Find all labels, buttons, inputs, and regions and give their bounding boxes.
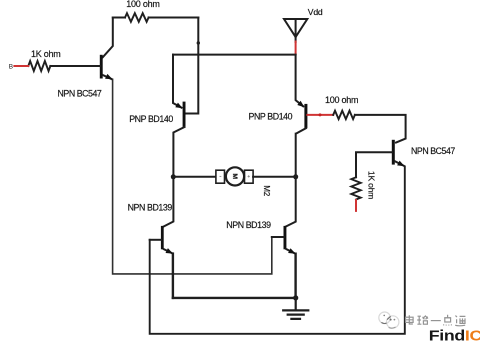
- wire Q3 base red: [307, 114, 333, 116]
- wire from R1 down to PNP1 base: [186, 18, 198, 114]
- wire Q1 emitter diagonal: [103, 75, 112, 79]
- wire Q6 emitter diagonal: [395, 161, 404, 165]
- svg-text:M2: M2: [262, 185, 271, 196]
- wire Q3 collector down through motor node to Q5: [286, 128, 306, 226]
- wire Q5 base: [272, 236, 284, 238]
- watermark logo marks: [382, 317, 395, 329]
- svg-text:B: B: [9, 63, 13, 70]
- node red dot on Q3 base wire: [319, 113, 322, 116]
- transistor Q6 NPN BC547 right bar: [392, 140, 395, 165]
- node dot on wire x198: [197, 41, 200, 44]
- watermark FindIC logo text: [429, 327, 480, 342]
- wire PNP Q2 emitter from rail: [173, 55, 182, 108]
- transistor Q5 NPN BD139 right bar: [284, 226, 287, 249]
- arrow Q4 emitter: [166, 248, 174, 254]
- arrow Q2 emitter (PNP): [175, 103, 182, 109]
- watermark chinese text 电路一点通 (drawn strokes): [406, 315, 466, 326]
- transistor Q3 PNP BD140 right bar: [304, 104, 307, 128]
- wire Vdd rail y54.6: [173, 54, 296, 56]
- wire ground rail: [173, 297, 296, 299]
- wire red input B: [14, 65, 28, 67]
- char 点: [444, 315, 452, 326]
- svg-text:FindIC: FindIC: [429, 327, 480, 342]
- svg-text:M: M: [231, 173, 238, 179]
- node right motor junction: [293, 174, 298, 179]
- arrow Q5 emitter: [288, 248, 296, 254]
- wire Q1 base from resistor: [50, 65, 99, 67]
- wire Q5 emitter diagonal: [286, 249, 294, 253]
- wire R3 to Q6 collector: [355, 115, 406, 143]
- transistor Q1 NPN BC547 left bar: [100, 55, 103, 79]
- svg-text:100 ohm: 100 ohm: [126, 0, 159, 9]
- motor M2 body circle: [226, 167, 244, 185]
- wire Q1 emitter down, across y274, up to Q4 base: [113, 79, 284, 274]
- wire Q4 base: [150, 239, 161, 241]
- motor M2 left terminal box: [216, 170, 225, 183]
- motor plus mark: [248, 175, 250, 177]
- char 通: [455, 316, 465, 326]
- char 一: [431, 320, 441, 322]
- node ground junction: [293, 295, 298, 300]
- arrow Q1 emitter: [105, 74, 113, 79]
- power Vdd symbol triangle: [284, 19, 307, 37]
- wire Q2 collector down to output node: [164, 127, 185, 226]
- arrow Q6 emitter: [397, 161, 405, 167]
- svg-text:NPN BD139: NPN BD139: [128, 203, 173, 213]
- svg-text:PNP BD140: PNP BD140: [129, 114, 173, 124]
- transistor Q2 PNP BD140 left bar: [183, 102, 186, 127]
- svg-text:100 ohm: 100 ohm: [325, 95, 358, 105]
- wire Vdd lead black stub: [295, 37, 297, 42]
- wire motor left: [173, 176, 216, 178]
- wire top rail left: [113, 17, 199, 19]
- ground symbol: [283, 298, 308, 319]
- svg-text:NPN BD139: NPN BD139: [226, 220, 271, 230]
- resistor R1 100 ohm top: [125, 13, 149, 22]
- wire Q4 emitter down to ground rail: [172, 254, 174, 298]
- wire motor right: [253, 176, 296, 178]
- svg-text:Vdd: Vdd: [308, 7, 323, 17]
- resistor R2 1K ohm left: [28, 61, 50, 71]
- resistor R3 100 ohm right: [333, 111, 355, 119]
- wire Q5 emitter down to ground node: [294, 254, 296, 298]
- char 电: [406, 315, 414, 324]
- wire Q4 emitter diagonal: [164, 249, 172, 253]
- node left motor junction: [171, 174, 176, 179]
- wire Q1 collector up to rail: [103, 18, 113, 58]
- svg-text:1K ohm: 1K ohm: [367, 171, 377, 199]
- watermark logo circles: [379, 312, 399, 328]
- wire Q4 base down to bottom wire and across to right emitter: [150, 167, 405, 334]
- resistor R4 1K ohm right vertical: [351, 177, 360, 199]
- svg-text:NPN BC547: NPN BC547: [411, 146, 455, 156]
- svg-text:PNP BD140: PNP BD140: [249, 111, 293, 121]
- transistor Q4 NPN BD139 left bar: [161, 226, 164, 249]
- wire Vdd lead red segment: [295, 42, 297, 54]
- motor minus mark: [220, 175, 222, 177]
- svg-text:NPN BC547: NPN BC547: [58, 88, 102, 98]
- wire red tail below R4: [355, 200, 357, 211]
- arrow Q3 emitter (PNP): [297, 101, 304, 108]
- motor M2 right terminal box: [245, 170, 254, 183]
- wire Q6 base to 1K resistor: [356, 152, 392, 177]
- svg-text:1K ohm: 1K ohm: [31, 49, 61, 59]
- wire Vdd down to PNP Q3 emitter: [296, 55, 304, 107]
- char 路: [417, 316, 428, 324]
